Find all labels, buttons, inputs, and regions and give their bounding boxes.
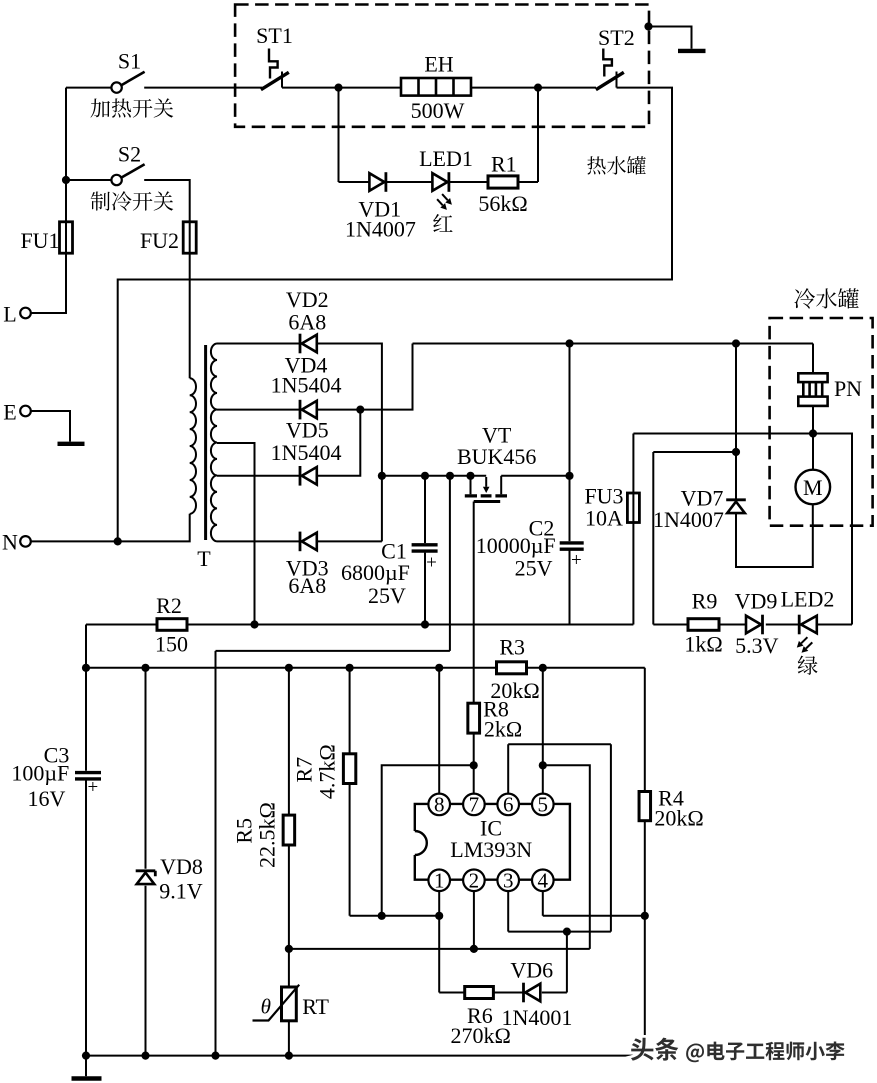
hot water tank dashed enclosure [235,5,649,127]
wire row-651 link [216,476,450,651]
wire secondary top tap to VD2 [217,343,300,345]
svg-text:R5: R5 [232,818,257,844]
junction dots 9V rail [82,664,547,672]
switch S1 [111,72,144,93]
svg-text:25V: 25V [368,583,406,608]
IC U1 LM393N body [415,804,570,880]
IC pin 3 [497,869,519,893]
svg-text:1kΩ: 1kΩ [684,632,722,657]
wire R9 chain left riser [653,452,736,625]
svg-text:56kΩ: 56kΩ [478,191,527,216]
IC pin 8 [428,793,450,817]
wire VD7 cathode up to supply row [735,344,737,500]
svg-text:θ: θ [261,995,271,1019]
wire secondary bottom tap to VD3 [217,540,300,542]
wire pin1 column [438,891,440,992]
wire secondary tap to VD5 [217,475,300,477]
wire R5 column [288,668,290,949]
fuse FU2 [183,222,196,253]
wire supply row to cold tank [413,343,814,345]
resistor R7 [343,754,355,784]
svg-text:4: 4 [538,869,549,893]
wire row-916 right (pin4 to R4) [543,915,645,917]
wire indicator row segment 2 [386,181,432,183]
junction dot S2 tap [62,176,70,184]
svg-text:PN: PN [834,376,862,401]
junction dots cold tank [732,429,817,456]
wire S2 to FU2 [144,180,190,378]
wire VT gate line down to R8 [473,502,475,704]
terminal E [20,406,31,417]
wire N row to transformer primary [31,514,190,542]
wire VT drain side to C2 node [501,344,569,476]
junction dot VD6 node [563,928,571,936]
wire ST1 to EH left node [282,87,401,89]
fuse FU1 [60,222,73,253]
junction dots DC rail [250,620,429,628]
svg-text:VD2: VD2 [286,287,329,312]
svg-text:5.3V: 5.3V [735,633,779,658]
wire E to earth [31,411,70,442]
IC pin 2 [463,869,485,893]
wire VD5 output up to VD4 node [317,410,360,476]
label 制冷开关 [91,191,174,210]
svg-text:FU1: FU1 [20,228,59,253]
capacitor C3 [75,773,101,779]
wire C1 bottom connection [424,553,426,625]
label 冷水罐 [794,288,858,308]
svg-text:3: 3 [503,869,514,893]
zener diode VD9 [746,615,763,635]
LED1 emission arrows [437,194,452,210]
wire row-651 leg to ground rail [215,651,217,1056]
IC pin 1 [428,869,450,893]
wire pin7 to pin1 link [382,765,474,916]
watermark 头条@电子工程师小李 [631,1038,845,1063]
svg-text:16V: 16V [28,786,66,811]
wire earth stub at hot tank [649,27,692,49]
svg-text:VD9: VD9 [735,589,778,614]
svg-text:ST1: ST1 [256,23,293,48]
wire S1 row to switch [66,87,111,89]
svg-text:+: + [571,550,582,571]
terminal N [20,536,31,547]
resistor R2 [157,619,187,631]
junction dots VT source rail [421,472,574,480]
wire DC rail middle segment [187,624,633,626]
wire PN bottom to node [812,406,814,434]
diode VD1 [369,172,386,192]
IC pin 7 [463,793,485,817]
wire heater-left node down to indicator row [338,88,340,182]
wire VD4 output to supply riser [317,344,413,410]
svg-text:1N5404: 1N5404 [271,372,342,397]
svg-text:10000µF: 10000µF [476,533,556,558]
svg-text:L: L [3,302,16,327]
LED LED1 [432,172,449,192]
svg-text:VD6: VD6 [510,958,553,983]
svg-text:1N4007: 1N4007 [653,507,724,532]
svg-text:N: N [2,530,18,555]
resistor R5 [283,815,295,845]
wire row-949 (pin2 to R5/RT) [289,948,590,950]
diode VD7 [726,500,746,513]
wire 9V rail right of R3 [527,667,645,669]
resistor R1 [488,176,518,188]
svg-text:5: 5 [538,793,549,817]
svg-text:2: 2 [469,869,480,893]
junction dots row-949 [285,945,478,953]
svg-text:1N5404: 1N5404 [271,440,342,465]
wire secondary tap to VD4 [217,409,300,411]
wire pin6 row [508,744,611,931]
wire S2 row [66,179,111,181]
svg-text:R7: R7 [292,757,317,783]
wire R4 column [644,668,646,1056]
earth symbol at E [58,442,85,446]
junction dots row-916 [378,912,649,920]
label 加热开关 [91,98,174,117]
svg-text:22.5kΩ: 22.5kΩ [255,802,280,868]
wire VD8 column [145,668,147,1056]
wire supply row into PN [812,344,814,374]
svg-text:R2: R2 [156,593,182,618]
wire R6 row segment 2 [493,992,523,994]
svg-text:S2: S2 [118,142,141,167]
wire R2 left leg down to 9V rail and C3 [85,625,87,771]
svg-text:M: M [803,475,823,500]
wire 9V rail (row 668) [86,667,497,669]
svg-text:S1: S1 [118,49,141,74]
svg-text:R3: R3 [499,635,525,660]
svg-text:10A: 10A [585,506,623,531]
transformer T secondary winding [211,344,217,542]
svg-text:LED2: LED2 [781,587,835,612]
svg-text:R1: R1 [491,152,517,177]
wire ground rail [86,1055,645,1057]
wire pin5 stub [542,668,544,794]
svg-text:7: 7 [469,793,480,817]
svg-text:LED1: LED1 [419,146,473,171]
junction dots ground rail [82,1052,293,1060]
label 绿 [798,656,818,675]
IC pin 4 [532,869,554,893]
IC pin 6 [497,793,519,817]
svg-text:9.1V: 9.1V [159,879,203,904]
wire pin3 stub [507,891,509,932]
wire pin4 stub [542,891,544,916]
svg-text:6A8: 6A8 [288,573,326,598]
resistor R9 [688,619,719,631]
IC pin 5 [532,793,554,817]
wire R9 row segment 4 [818,624,853,626]
svg-text:25V: 25V [515,556,553,581]
zener diode VD8 [136,871,156,884]
rectifier diode VD2 [300,334,317,354]
wire L-FU1-S1 vertical [31,88,66,313]
svg-text:6: 6 [503,793,514,817]
wire indicator row segment 3 [449,181,488,183]
rectifier diode VD4 [300,400,317,420]
svg-text:EH: EH [424,52,453,77]
diode VD6 [524,983,541,1003]
wire RT column [288,949,290,1056]
svg-text:1N4001: 1N4001 [501,1005,572,1030]
svg-text:6A8: 6A8 [288,310,326,335]
wire indicator row segment 1 [339,181,370,183]
wire R9 row segment 1 [653,624,688,626]
resistor R8 [468,703,480,733]
svg-text:20kΩ: 20kΩ [654,806,703,831]
wire motor bottom loop to VD7 anode [736,504,813,567]
wire R9 row segment 2 [719,624,746,626]
ground symbol bottom left [72,1076,102,1081]
peltier module PN [798,373,827,406]
resistor R3 [497,662,527,674]
resistor R4 [639,792,651,821]
svg-text:VD8: VD8 [160,854,203,879]
MOSFET VT [465,476,507,502]
thermostat ST2 [596,49,624,90]
rectifier diode VD5 [300,466,317,486]
transformer T primary winding [190,378,196,514]
wire PN-bottom row [633,434,852,625]
svg-text:LM393N: LM393N [450,837,532,862]
svg-text:RT: RT [302,994,329,1019]
motor M [796,470,831,505]
wire heater-right node down to indicator row [537,88,539,182]
wire ST2 to right side down to return row [118,88,672,542]
junction dot N row [114,537,122,545]
capacitor C1 [412,545,438,551]
svg-text:BUK456: BUK456 [457,444,536,469]
wire R9 row segment 3 [766,624,799,626]
wire ground stub [85,1056,87,1077]
svg-text:100µF: 100µF [11,761,69,786]
svg-text:FU2: FU2 [140,228,179,253]
svg-text:2kΩ: 2kΩ [484,717,522,742]
wire node to motor M [812,434,814,470]
svg-text:T: T [197,546,211,571]
heater EH [401,78,471,96]
wire C2 bottom connection [569,550,571,624]
wire VD3 output [317,540,382,542]
wire R8 bottom to pin 7 [473,733,475,793]
wire C1 top connection [424,476,426,543]
wire C2 top connection [569,476,571,541]
wire pin8 stub [438,668,440,794]
svg-text:+: + [426,553,437,574]
svg-text:VD5: VD5 [286,418,329,443]
label 热水罐 [587,156,646,174]
wire row-916 left (R7, pin7 link, pin1) [350,915,440,917]
capacitor C2 [560,543,584,549]
wire FU3 branch down to DC rail [632,434,634,625]
wire VD2 output down the rectifier bus [317,344,382,542]
svg-text:1N4007: 1N4007 [345,217,416,242]
svg-text:6800µF: 6800µF [341,560,410,585]
svg-text:+: + [88,777,99,798]
LED LED2 [799,615,817,635]
svg-text:4.7kΩ: 4.7kΩ [315,744,340,799]
rectifier diode VD3 [300,532,317,552]
wire R6 row segment 3 [542,992,567,994]
wire row-932 (pin3) [508,931,611,933]
wire pin5 node branch [543,765,590,949]
wire VD6 link down [566,932,568,993]
wire S1 to ST1 [144,87,262,89]
wire EH right node to ST2 [471,87,596,89]
cold water tank dashed enclosure [770,318,873,526]
wire C3 bottom to ground rail [85,781,87,1056]
svg-text:500W: 500W [411,98,465,123]
thermostat ST1 [261,49,289,90]
resistor R6 [465,987,494,999]
junction dots supply row [565,339,740,347]
junction dots comparator inputs [470,761,547,769]
junction dots rectifier nodes [356,406,386,480]
LED2 emission arrows [797,637,813,653]
junction dots heater row [334,22,652,91]
fuse FU3 [627,493,639,523]
label 红 [433,214,452,232]
svg-text:E: E [3,400,16,425]
thermistor RT [253,985,300,1021]
wire DC rail left segment [86,624,157,626]
svg-text:ST2: ST2 [598,25,635,50]
wire R6 row segment 1 [439,992,465,994]
transformer T core [204,345,207,540]
svg-text:8: 8 [434,793,445,817]
svg-text:1: 1 [434,869,445,893]
wire R7 column [349,668,351,916]
terminal L [20,308,31,319]
svg-text:R9: R9 [692,589,718,614]
wire VT source rail [382,475,486,477]
switch S2 [111,164,144,185]
wire indicator row segment 4 [518,181,538,183]
wire secondary centre tap down to DC rail [217,443,255,625]
earth symbol top right [678,49,706,53]
svg-text:150: 150 [155,632,188,657]
wire pin2 stub [473,891,475,949]
